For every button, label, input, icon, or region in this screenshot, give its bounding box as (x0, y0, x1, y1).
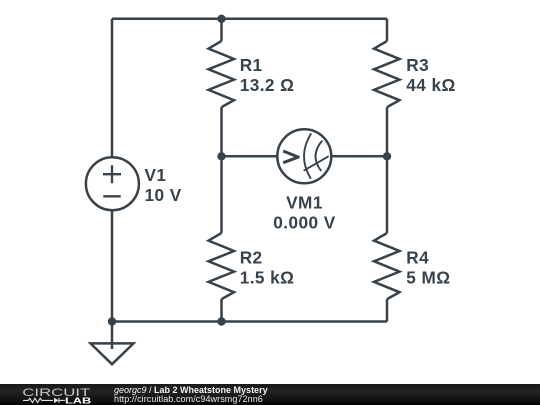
svg-text:R4: R4 (406, 248, 429, 268)
svg-text:1.5 kΩ: 1.5 kΩ (240, 268, 295, 288)
svg-text:LAB: LAB (65, 395, 91, 405)
svg-text:R2: R2 (240, 248, 263, 268)
svg-text:5 MΩ: 5 MΩ (406, 268, 450, 288)
svg-text:13.2 Ω: 13.2 Ω (240, 75, 295, 95)
svg-text:VM1: VM1 (286, 193, 323, 213)
svg-text:V1: V1 (145, 165, 167, 185)
svg-text:44 kΩ: 44 kΩ (406, 75, 455, 95)
svg-text:R1: R1 (240, 55, 263, 75)
svg-text:R3: R3 (406, 55, 429, 75)
svg-text:0.000 V: 0.000 V (273, 213, 335, 233)
svg-text:10 V: 10 V (145, 185, 182, 205)
